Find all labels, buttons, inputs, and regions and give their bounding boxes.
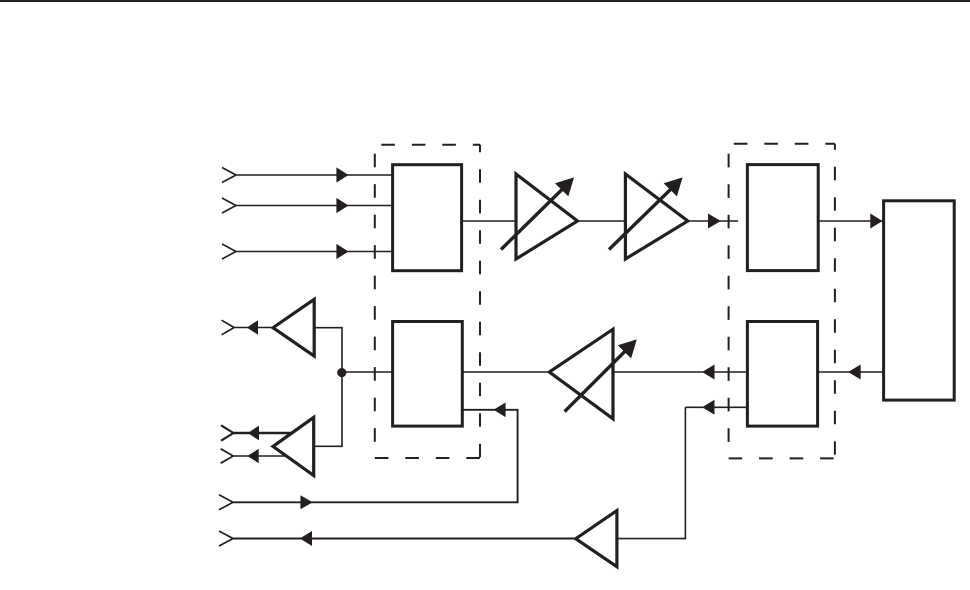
wire F1 to DAC/ADC block: [818, 220, 883, 222]
wire node down to buffer B2: [314, 372, 342, 446]
buffer B3: [576, 511, 617, 567]
wire A3 input from F2: [613, 371, 747, 373]
terminal B2 out1 chevron: [221, 425, 234, 440]
block filter F2: [747, 322, 817, 427]
terminal B2 out2 chevron: [221, 449, 234, 463]
wire B2 output 2: [233, 455, 295, 457]
wire TX-in-1: [236, 174, 393, 176]
wire buffer B1 output: [234, 327, 275, 329]
wire bottom line 2 to buffer B3: [233, 538, 576, 540]
terminal ref-in chevron: [219, 495, 233, 510]
variable-gain amp A1: [516, 174, 578, 259]
terminal TX-in-1 chevron: [222, 168, 236, 183]
wire B5 to F2: [818, 371, 884, 373]
wire U1 to amp: [462, 220, 516, 222]
wire B1 base to node: [314, 328, 342, 373]
wire B3 input from F2 aux: [617, 407, 686, 538]
wire node to divider U2: [342, 371, 393, 373]
block upconverter U1: [393, 165, 462, 271]
dashed box left (RF front-end): [375, 145, 480, 458]
wire U2 aux input with corner from bottom line 1: [233, 410, 518, 503]
wire TX-in-2: [236, 205, 393, 207]
buffer B1: [273, 299, 314, 356]
terminal LO-out chevron: [222, 320, 235, 335]
block baseband B5: [884, 201, 955, 400]
wire B2 output 1 (thick): [234, 432, 299, 434]
block divider U2: [393, 322, 463, 427]
terminal TX-in-3 chevron: [222, 244, 236, 259]
wire F2 aux output: [685, 406, 747, 408]
wire A2 to filter F1: [688, 220, 738, 222]
terminal TX-in-2 chevron: [222, 198, 236, 213]
dashed box right (IF section): [729, 144, 835, 459]
wire A1 to A2: [578, 220, 626, 222]
top rule: [0, 0, 970, 2]
wire TX-in-3: [236, 251, 393, 253]
node LO junction: [337, 368, 346, 377]
wire U2 output to A3: [462, 371, 550, 373]
variable-gain amp A3: [549, 329, 613, 419]
terminal mon-out chevron: [219, 531, 233, 546]
buffer B2: [273, 417, 314, 475]
block filter F1: [747, 165, 818, 271]
variable-gain amp A2: [625, 174, 687, 259]
